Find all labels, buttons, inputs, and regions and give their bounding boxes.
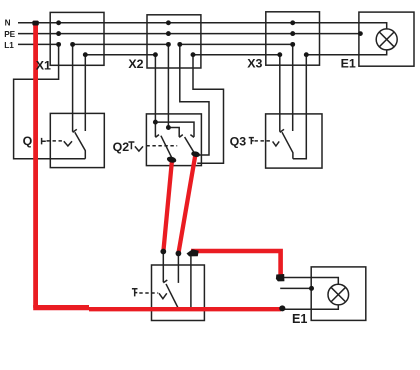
switch Q2 actuator symbol [128,142,134,149]
lamp E1 bottom cross [331,287,346,302]
node dot bottom switch 1 [160,249,166,255]
svg-text:E1: E1 [341,56,356,70]
bottom switch box [152,265,205,321]
svg-text:N: N [5,19,11,28]
node dot E1 bottom PE [309,286,314,291]
node blob red corner E1 bottom feed [276,274,285,281]
lamp E1 bottom circle [328,284,349,305]
svg-text:Q: Q [23,134,33,148]
lamp E1 top cross [379,32,394,47]
switch Q2 internal feed to contact 2 [168,128,182,138]
switch Q lever [75,132,86,159]
bottom switch actuator v mark [159,293,167,298]
node dot X3 lamp a [277,52,282,57]
node blob Q2 lever1 end [166,156,177,164]
node L1 bus segment 1 [18,43,59,45]
node dot X3 lamp b [304,52,309,57]
switch Q actuator dashed link [47,140,64,142]
bottom switch actuator symbol [132,289,138,297]
wire X1 to Q contact 1 [72,44,74,131]
switch Q2 contact 1 [155,122,159,137]
switch Q box [50,113,104,167]
node dot X3 L1 [290,42,295,47]
wire to bottom switch contact 2 [177,253,179,283]
node N bus [18,23,387,29]
wire X3 to Q3 common [293,55,306,159]
wire X3 to Q3 contact 1 [279,55,281,132]
svg-text:L1: L1 [4,41,14,50]
switch Q2 internal feed to contact 3 [155,122,194,137]
wire PE stub to E1 bottom [280,287,311,289]
bottom switch lever [166,284,178,308]
wire X2 to Q2 input 2 [167,44,169,127]
node blob red end bottom [279,305,285,311]
distribution box E1 top [359,12,414,66]
node dot X2 lamp a [153,52,158,57]
switch Q3 actuator symbol [249,138,254,145]
wire red N feed down [33,21,38,308]
switch Q3 lever [282,132,293,159]
node dot X1 L1 b [70,42,75,47]
svg-text:E1: E1 [292,312,307,326]
switch Q3 actuator v mark [273,141,280,146]
switch Q contact tick [73,129,77,132]
switch Q3 contact tick [280,129,284,132]
node dot E1 top PE [358,31,363,36]
svg-text:Q3: Q3 [230,135,247,149]
wire red bottom run right part [89,307,281,311]
switch Q2 actuator v mark [135,146,143,151]
switch Q actuator symbol [42,138,46,145]
switch Q3 box [266,114,322,168]
node blob bottom switch output [187,249,199,256]
wire X2 lamp-b down right of Q2 to output [193,55,224,164]
svg-text:PE: PE [4,30,15,39]
node dot X2 PE [166,31,171,36]
node dot X3 N [290,20,295,25]
wire blob to lamp E1 bottom top [284,278,338,285]
switch Q2 box [146,114,201,166]
wire X2 to Q2 input 1 [154,55,156,122]
switch Q3 actuator dashed link [255,140,272,142]
distribution box E1 bottom [311,267,366,321]
junction box X3 [266,12,320,65]
node dot bottom switch 2 [176,251,182,257]
node dot Q2 input 2 [166,125,171,130]
node blob Q2 lever2 end [191,151,201,158]
switch Q actuator v mark [64,141,72,146]
switch Q2 lever 2 [185,137,195,154]
node dot X3 PE [290,31,295,36]
wire red Q2 lever2 to bottom switch [179,155,196,253]
wire red bottom switch output to E1 bottom [191,251,281,276]
wire X3 to Q3 contact 2 [292,44,294,131]
wire to bottom switch contact 1 [163,252,167,283]
wire red bottom run left part [33,305,89,310]
wire X1 L1 loop to switch Q common [14,44,86,158]
switch Q2 actuator dashed link [146,145,177,147]
node dot X2 lamp b [191,52,196,57]
node dot X1 L1 a [56,42,61,47]
wire lamp line X2 to X3 [193,54,280,56]
bottom switch common wire to lamp E1 bottom [177,305,338,310]
wire lamp line X1 to X2 [85,54,155,56]
wire L1 X1 to X2 [72,43,168,45]
svg-text:X2: X2 [128,57,143,71]
node dot Q2 input 1 [153,120,158,125]
svg-text:X1: X1 [36,58,51,72]
node dot X2 L1 a [166,42,171,47]
node dot X2 N [166,20,171,25]
bottom switch actuator dashed link [139,292,158,294]
wire red Q2 lever1 to bottom switch [163,160,172,251]
switch Q2 contact 3 tick [190,135,194,138]
node PE bus [18,33,360,35]
node dot X1 lamp line [83,52,88,57]
junction box X1 [50,12,104,65]
node dot X1 N [56,20,61,25]
wire switched L1 X2 to X3 [180,43,293,45]
wire X1 to Q contact 2 [84,55,86,131]
wire to bottom switch output [190,254,192,310]
wire X2 L1b down right of Q2 to lever2 terminal [180,44,209,155]
node dot X1 PE [56,31,61,36]
node dot N red tap [32,21,38,26]
svg-text:Q2: Q2 [113,140,130,154]
svg-text:X3: X3 [247,56,262,70]
node dot X2 L1 b [177,42,182,47]
switch Q2 lever 1 [161,136,172,159]
lamp E1 top circle [376,29,397,50]
junction box X2 [147,15,201,68]
wire lamp line X3 to E1 [306,50,386,55]
